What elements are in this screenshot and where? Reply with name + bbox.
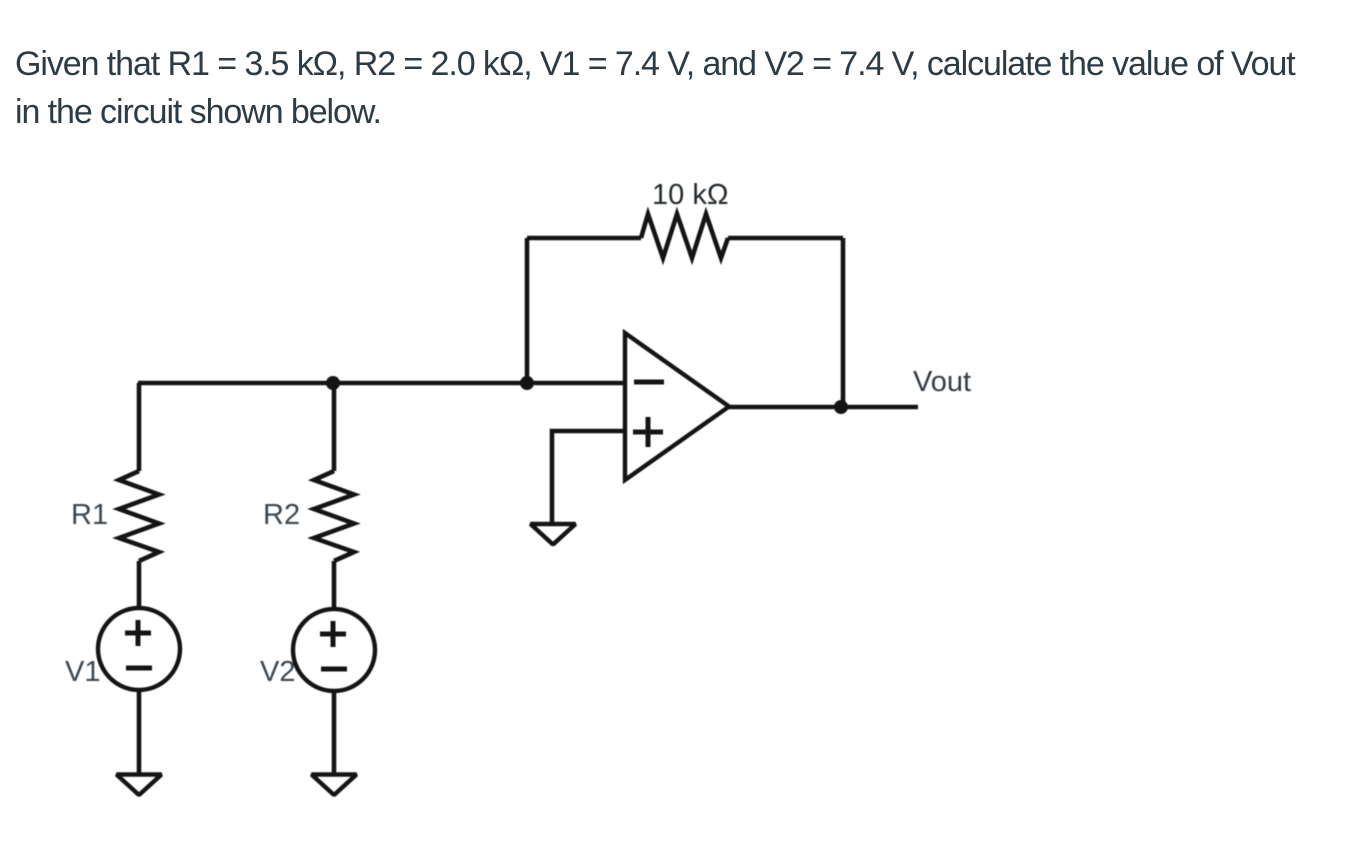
wire noninverting input — [552, 431, 625, 523]
wire branch1 top — [137, 383, 142, 471]
ground (op-amp + input) — [531, 524, 576, 545]
V2 minus sign — [321, 667, 347, 672]
op-amp plus pin — [633, 430, 663, 435]
wire feedback top left — [527, 236, 641, 241]
resistor Rf 10k zigzag — [641, 214, 728, 258]
V2 plus sign — [320, 632, 346, 637]
ground (V1) — [117, 775, 162, 796]
ground (V2) — [312, 775, 357, 796]
wire feedback right vertical — [841, 238, 846, 407]
V1 minus sign — [126, 666, 152, 671]
wire output — [729, 405, 918, 410]
node B junction dot — [520, 376, 534, 390]
svg-text:R2: R2 — [263, 499, 300, 531]
V1 plus sign — [125, 631, 151, 636]
op-amp minus pin — [634, 380, 664, 385]
resistor R1 zigzag — [119, 471, 159, 561]
question text — [15, 40, 1295, 136]
svg-text:R1: R1 — [71, 499, 108, 531]
source V1 circle — [98, 608, 180, 690]
wire feedback left vertical — [525, 238, 530, 383]
node A junction dot — [326, 376, 340, 390]
source V2 circle — [293, 609, 375, 691]
wire branch2 top — [332, 383, 337, 471]
op-amp U1 triangle — [625, 333, 729, 480]
svg-text:V2: V2 — [260, 656, 295, 688]
resistor R2 zigzag — [314, 471, 354, 561]
wire branch2 bottom — [332, 691, 337, 777]
wire branch1 bottom — [137, 690, 142, 777]
wire branch2 mid — [332, 561, 337, 608]
wire branch1 mid — [137, 561, 142, 608]
svg-text:Vout: Vout — [913, 366, 971, 398]
node Vout junction dot — [834, 400, 848, 414]
wire main input node line — [138, 381, 625, 386]
svg-text:10 kΩ: 10 kΩ — [652, 179, 729, 211]
svg-text:V1: V1 — [65, 656, 100, 688]
wire feedback top right — [728, 236, 843, 241]
